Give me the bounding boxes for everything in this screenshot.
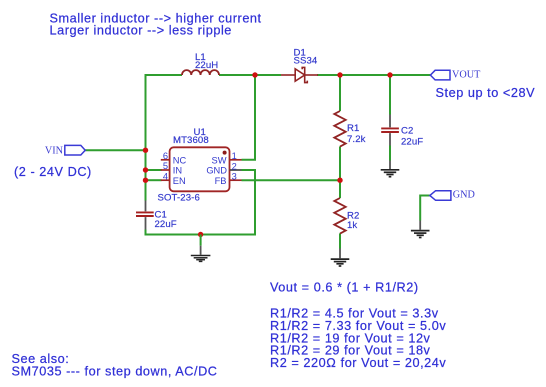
svg-text:1: 1: [232, 151, 237, 161]
wire: L1 right to diode anode: [219, 74, 281, 76]
ground under bottom rail: [191, 246, 211, 262]
svg-text:Larger inductor --> less rippl: Larger inductor --> less ripple: [50, 23, 232, 37]
port VOUT flag: [430, 70, 450, 80]
wire: VIN port to left vertical: [85, 149, 146, 151]
junction FB / divider: [337, 178, 342, 183]
inductor L1: [182, 70, 219, 75]
junction VIN tap: [143, 148, 148, 153]
wire: R2 bottom to ground: [339, 233, 341, 248]
wire: top rail to C2 top: [389, 75, 391, 115]
ground under GND port: [411, 221, 430, 238]
pin 4 EN stub: [161, 179, 170, 181]
pin 6 NC stub: [161, 159, 170, 161]
svg-text:SM7035 --- for step down, AC/D: SM7035 --- for step down, AC/DC: [12, 365, 218, 379]
wire: EN pin tap: [146, 179, 162, 181]
svg-text:GND: GND: [453, 189, 475, 200]
wire: R1 bottom to node: [339, 147, 341, 181]
junction top rail / R1: [337, 72, 342, 77]
svg-text:SW: SW: [212, 155, 227, 165]
svg-text:IN: IN: [173, 166, 182, 176]
svg-text:NC: NC: [173, 155, 187, 165]
svg-text:2: 2: [232, 161, 237, 171]
svg-text:Vout = 0.6 * (1 + R1/R2): Vout = 0.6 * (1 + R1/R2): [270, 280, 419, 294]
U1 pin-1 marker dot: [223, 151, 227, 155]
svg-text:22uF: 22uF: [401, 137, 423, 148]
capacitor C1: [136, 201, 154, 230]
pin 5 IN stub: [161, 169, 170, 171]
svg-text:VIN: VIN: [45, 145, 64, 156]
svg-text:R2 = 220Ω for Vout = 20,24v: R2 = 220Ω for Vout = 20,24v: [270, 356, 446, 370]
resistor R2: [334, 198, 345, 234]
diode D1 (Schottky SS34): [281, 67, 318, 82]
junction IN tap: [143, 167, 148, 172]
svg-text:FB: FB: [215, 176, 227, 186]
wire: GND pin down to bottom rail and left to C1: [146, 170, 256, 235]
svg-text:SOT-23-6: SOT-23-6: [158, 193, 200, 204]
pin 2 GND stub (gray): [230, 169, 242, 171]
wire: GND port to ground: [420, 196, 430, 221]
svg-text:SS34: SS34: [294, 56, 318, 67]
svg-text:1k: 1k: [347, 220, 357, 231]
ground under C2: [381, 161, 400, 177]
wire: top rail to R1 top: [339, 75, 341, 111]
capacitor C2: [381, 115, 399, 146]
junction bottom rail / ground: [198, 232, 203, 237]
svg-text:7.2k: 7.2k: [347, 134, 366, 145]
port VIN flag: [65, 145, 85, 155]
ground under R2: [331, 249, 350, 267]
wire: top rail left (corner to L1) + left vertical down to C1: [146, 75, 183, 201]
wire: rail junction stub down: [200, 235, 202, 246]
svg-text:22uH: 22uH: [195, 60, 218, 71]
resistor R1: [334, 111, 345, 147]
svg-text:C2: C2: [401, 126, 413, 137]
junction top rail / C2: [387, 72, 392, 77]
svg-text:Step up to <28V: Step up to <28V: [436, 86, 536, 100]
wire: IN pin tap: [146, 169, 162, 171]
svg-text:5: 5: [163, 161, 168, 171]
svg-text:4: 4: [163, 171, 168, 181]
svg-text:R1: R1: [347, 123, 359, 134]
wire: diode cathode to VOUT port: [317, 74, 430, 76]
wire: FB pin to divider node: [242, 179, 341, 181]
svg-text:MT3608: MT3608: [173, 135, 209, 146]
junction top rail / SW: [252, 72, 257, 77]
port GND flag: [430, 191, 451, 201]
svg-text:GND: GND: [206, 166, 227, 176]
junction EN tap: [143, 178, 148, 183]
svg-text:VOUT: VOUT: [452, 70, 481, 81]
svg-text:(2 - 24V DC): (2 - 24V DC): [14, 165, 92, 179]
svg-text:3: 3: [232, 171, 237, 181]
pin 1 SW stub: [230, 159, 242, 161]
svg-text:6: 6: [163, 151, 168, 161]
wire: node to R2 top: [339, 180, 341, 198]
svg-text:EN: EN: [173, 176, 186, 186]
wire: SW pin up to top rail: [242, 75, 256, 160]
wire: C2 bottom to ground: [389, 146, 391, 161]
pin 3 FB stub: [230, 179, 242, 181]
IC U1 MT3608 body: [170, 147, 230, 191]
svg-text:22uF: 22uF: [155, 219, 177, 230]
